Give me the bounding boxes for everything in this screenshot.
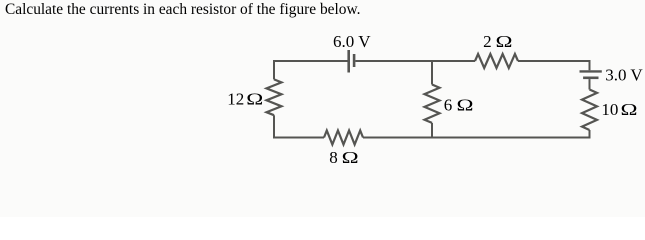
label 6 ohm for resistor R3 [444, 96, 474, 115]
wire top-right with corner (resistor 2ohm to node C down to battery B2) [518, 61, 590, 70]
wire bottom-right with corner (resistor 10ohm down, through node D to resistor 8ohm) [363, 130, 590, 138]
svg-text:Ω: Ω [246, 90, 263, 109]
label 12 ohm for resistor R1 [227, 90, 263, 109]
svg-text:6.0 V: 6.0 V [333, 32, 371, 51]
battery B1 6.0 V short plate [353, 54, 356, 67]
wire resistor 6ohm to bottom junction node D [431, 123, 433, 138]
wire top-middle (battery B1 through node B to resistor 2ohm) [355, 60, 475, 62]
label 2 ohm for resistor R2 [483, 32, 512, 51]
svg-text:Ω: Ω [496, 32, 513, 51]
resistor R3 6 ohm zigzag [425, 85, 440, 123]
svg-text:6: 6 [444, 96, 453, 115]
svg-text:Ω: Ω [457, 96, 474, 115]
svg-text:Ω: Ω [621, 100, 638, 119]
battery B2 3.0 V short plate [583, 77, 598, 80]
resistor R2 2 ohm zigzag [475, 54, 518, 68]
battery B2 3.0 V long plate [580, 70, 602, 72]
battery B1 6.0 V long plate [347, 50, 350, 73]
wire middle branch top (node B to resistor 6ohm) [431, 61, 433, 85]
wire bottom-left with corner (resistor 8ohm to node E up to resistor 12ohm) [274, 115, 324, 137]
svg-text:3.0 V: 3.0 V [605, 65, 643, 84]
svg-text:2: 2 [483, 32, 492, 51]
svg-text:12: 12 [227, 90, 244, 109]
resistor R1 12 ohm zigzag [267, 79, 282, 115]
title text [5, 1, 360, 19]
svg-text:Ω: Ω [342, 148, 359, 167]
svg-text:10: 10 [601, 100, 618, 119]
wire battery B2 to resistor 10ohm [589, 79, 591, 89]
label 10 ohm for resistor R5 [601, 100, 637, 119]
resistor R4 8 ohm zigzag [324, 131, 363, 145]
svg-text:8: 8 [329, 148, 338, 167]
resistor R5 10 ohm zigzag [582, 90, 597, 131]
label 8 ohm for resistor R4 [329, 148, 358, 167]
wire top-left with corner (battery B1 to node A down to resistor 12ohm) [274, 61, 348, 79]
